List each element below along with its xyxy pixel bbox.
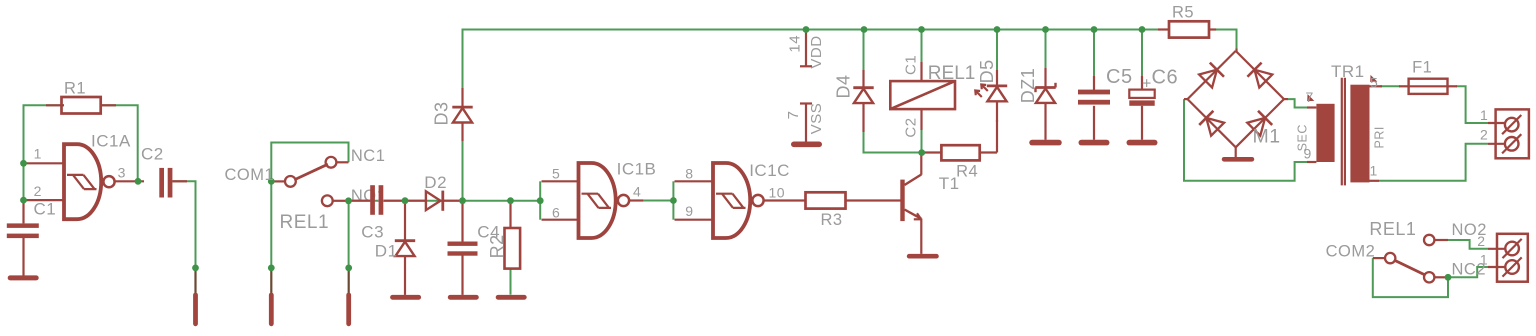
svg-text:R1: R1 <box>64 80 86 98</box>
svg-text:14: 14 <box>787 35 804 53</box>
svg-text:VDD: VDD <box>808 35 825 68</box>
svg-text:R5: R5 <box>1172 4 1194 22</box>
svg-text:IC1C: IC1C <box>749 161 790 180</box>
svg-text:C1: C1 <box>902 55 919 75</box>
svg-text:REL1: REL1 <box>928 63 976 84</box>
svg-text:R3: R3 <box>821 211 843 229</box>
svg-text:2: 2 <box>1477 233 1485 249</box>
svg-text:M1: M1 <box>1253 126 1281 148</box>
svg-text:TR1: TR1 <box>1331 62 1365 81</box>
svg-text:COM2: COM2 <box>1326 242 1376 260</box>
svg-text:D2: D2 <box>424 173 447 192</box>
svg-text:3: 3 <box>118 164 126 180</box>
svg-text:R2: R2 <box>487 234 507 258</box>
svg-text:1: 1 <box>1370 163 1378 179</box>
svg-text:6: 6 <box>552 205 560 221</box>
svg-text:DZ1: DZ1 <box>1018 68 1038 104</box>
svg-text:D3: D3 <box>432 101 452 125</box>
svg-text:PRI: PRI <box>1373 126 1387 148</box>
svg-text:C2: C2 <box>141 145 164 164</box>
svg-text:D4: D4 <box>833 74 853 98</box>
svg-text:2: 2 <box>34 183 42 199</box>
svg-text:9: 9 <box>685 203 693 219</box>
svg-text:C3: C3 <box>361 223 384 242</box>
svg-text:1: 1 <box>34 146 42 162</box>
svg-text:2: 2 <box>1480 127 1488 143</box>
svg-text:IC1B: IC1B <box>617 160 657 179</box>
svg-text:+: + <box>1142 76 1152 93</box>
svg-text:8: 8 <box>685 165 693 181</box>
svg-text:5: 5 <box>1370 75 1378 91</box>
svg-text:NC1: NC1 <box>351 147 386 165</box>
svg-text:7: 7 <box>785 110 802 119</box>
svg-text:5: 5 <box>552 165 560 181</box>
svg-text:F1: F1 <box>1412 59 1432 77</box>
svg-text:C1: C1 <box>34 200 57 219</box>
svg-text:D5: D5 <box>977 59 997 83</box>
svg-text:REL1: REL1 <box>280 212 330 233</box>
svg-text:R4: R4 <box>956 162 978 180</box>
svg-text:NC2: NC2 <box>1452 261 1487 279</box>
svg-text:9: 9 <box>1304 146 1312 162</box>
svg-text:10: 10 <box>769 185 786 201</box>
svg-text:D1: D1 <box>375 242 398 261</box>
svg-text:COM1: COM1 <box>225 166 275 184</box>
svg-text:IC1A: IC1A <box>91 132 131 151</box>
svg-text:1: 1 <box>1480 107 1488 123</box>
svg-text:C2: C2 <box>902 117 919 137</box>
svg-text:REL1: REL1 <box>1369 219 1416 239</box>
svg-text:C6: C6 <box>1152 67 1179 89</box>
svg-text:4: 4 <box>633 184 641 200</box>
svg-text:7: 7 <box>1306 89 1314 105</box>
svg-text:C5: C5 <box>1106 66 1133 88</box>
svg-text:VSS: VSS <box>808 103 825 135</box>
